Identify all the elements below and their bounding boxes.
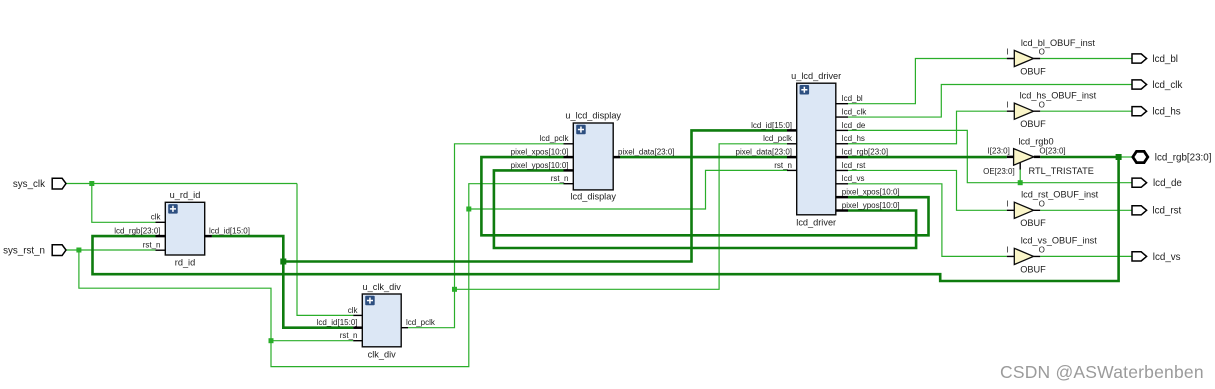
svg-text:u_rd_id: u_rd_id xyxy=(170,190,201,200)
port lcd_hs output xyxy=(1132,107,1181,118)
svg-text:rd_id: rd_id xyxy=(175,258,195,268)
svg-text:OBUF: OBUF xyxy=(1020,119,1046,129)
pin lcd_driver lcd_vs xyxy=(836,183,848,185)
pin lcd_driver lcd_rst xyxy=(836,169,848,171)
pin lcd_driver pixel_xpos[10:0] xyxy=(836,196,848,199)
svg-text:lcd_display: lcd_display xyxy=(570,192,616,202)
svg-text:lcd_rgb[23:0]: lcd_rgb[23:0] xyxy=(842,148,888,157)
svg-text:pixel_ypos[10:0]: pixel_ypos[10:0] xyxy=(842,201,900,210)
node sys_clk junction xyxy=(89,181,94,186)
wire lcd_rgb pad thin link to port xyxy=(1119,156,1133,158)
wire pixel_data bus xyxy=(620,156,787,159)
pin lcd_display pixel_data[23:0] xyxy=(613,156,620,159)
pin lcd_display lcd_pclk xyxy=(564,143,574,145)
svg-text:sys_clk: sys_clk xyxy=(13,179,45,190)
svg-text:clk: clk xyxy=(348,306,359,315)
node sys_rst_n junction branch to lcd_driver xyxy=(466,207,471,212)
pin lcd_driver lcd_id[15:0] xyxy=(787,129,797,132)
wire lcd_pclk net xyxy=(408,144,787,328)
svg-text:OBUF: OBUF xyxy=(1020,264,1046,274)
wire sys_clk net xyxy=(66,184,353,316)
svg-text:lcd_rgb[23:0]: lcd_rgb[23:0] xyxy=(114,227,160,236)
svg-text:lcd_rst: lcd_rst xyxy=(842,161,866,170)
svg-text:lcd_id[15:0]: lcd_id[15:0] xyxy=(317,318,358,327)
node lcd_de junction at OE xyxy=(1018,180,1023,185)
port lcd_bl output xyxy=(1132,54,1178,65)
svg-text:pixel_ypos[10:0]: pixel_ypos[10:0] xyxy=(511,161,569,170)
svg-text:lcd_rgb[23:0]: lcd_rgb[23:0] xyxy=(1155,152,1212,163)
svg-text:pixel_data[23:0]: pixel_data[23:0] xyxy=(618,148,675,157)
op-amp RTL_TRISTATE lcd_rgb0 xyxy=(983,137,1094,176)
svg-text:OBUF: OBUF xyxy=(1020,218,1046,228)
node lcd_pclk junction xyxy=(452,287,457,292)
pin rd_id lcd_rgb[23:0] xyxy=(156,235,166,238)
svg-text:lcd_hs_OBUF_inst: lcd_hs_OBUF_inst xyxy=(1020,91,1097,101)
wire lcd_rgb driver to tristate bus xyxy=(848,156,1007,159)
port lcd_rst output xyxy=(1132,206,1182,217)
pin lcd_display rst_n xyxy=(564,183,574,185)
svg-text:O: O xyxy=(1039,100,1045,109)
svg-text:rst_n: rst_n xyxy=(774,161,792,170)
svg-text:lcd_hs: lcd_hs xyxy=(1152,107,1180,118)
svg-text:I: I xyxy=(1006,100,1008,109)
svg-text:lcd_bl_OBUF_inst: lcd_bl_OBUF_inst xyxy=(1021,38,1095,48)
port lcd_vs output xyxy=(1132,252,1181,263)
wire tristate output bus xyxy=(1040,156,1118,159)
svg-text:RTL_TRISTATE: RTL_TRISTATE xyxy=(1029,166,1094,176)
svg-text:I: I xyxy=(1006,199,1008,208)
svg-text:O[23:0]: O[23:0] xyxy=(1039,146,1065,155)
svg-text:lcd_de: lcd_de xyxy=(842,121,866,130)
svg-text:lcd_vs: lcd_vs xyxy=(842,174,865,183)
port lcd_de output xyxy=(1132,178,1182,189)
node lcd_rgb pad junction xyxy=(1116,154,1122,160)
node sys_rst_n junction at clk_div xyxy=(269,338,274,343)
svg-text:I[23:0]: I[23:0] xyxy=(988,146,1010,155)
svg-text:CSDN @ASWaterbenben: CSDN @ASWaterbenben xyxy=(1000,362,1204,382)
svg-text:lcd_hs: lcd_hs xyxy=(842,134,865,143)
pin lcd_display pixel_xpos[10:0] xyxy=(564,156,574,159)
wire lcd_de net xyxy=(848,130,1132,182)
svg-text:sys_rst_n: sys_rst_n xyxy=(3,245,45,256)
svg-text:rst_n: rst_n xyxy=(340,331,358,340)
svg-text:lcd_rgb0: lcd_rgb0 xyxy=(1018,137,1053,147)
pin lcd_driver lcd_pclk xyxy=(787,143,797,145)
wire lcd_bl net xyxy=(848,59,1132,104)
op-amp OBUF lcd_bl_OBUF_inst xyxy=(1006,38,1095,77)
op-amp OBUF lcd_rst_OBUF_inst xyxy=(1006,190,1098,229)
pin rd_id clk xyxy=(156,221,166,223)
port lcd_clk output xyxy=(1132,80,1182,91)
svg-text:u_lcd_driver: u_lcd_driver xyxy=(791,71,841,81)
svg-text:pixel_xpos[10:0]: pixel_xpos[10:0] xyxy=(511,148,569,157)
node lcd_id bus junction xyxy=(280,259,286,265)
module u_clk_div xyxy=(362,282,401,360)
module u_lcd_display xyxy=(565,111,621,202)
module u_rd_id xyxy=(165,190,204,267)
pin rd_id lcd_id[15:0] xyxy=(205,235,212,238)
pin lcd_driver pixel_ypos[10:0] xyxy=(836,209,848,212)
svg-text:OBUF: OBUF xyxy=(1020,66,1046,76)
wire lcd_vs net xyxy=(848,184,1132,257)
op-amp OBUF lcd_hs_OBUF_inst xyxy=(1006,91,1096,130)
port sys_rst_n input xyxy=(3,245,66,257)
svg-text:lcd_de: lcd_de xyxy=(1153,178,1182,189)
svg-text:lcd_pclk: lcd_pclk xyxy=(540,134,570,143)
wire lcd_id bus net xyxy=(212,130,787,327)
svg-text:lcd_vs_OBUF_inst: lcd_vs_OBUF_inst xyxy=(1021,236,1098,246)
pin clk_div lcd_pclk xyxy=(401,327,408,329)
svg-text:rst_n: rst_n xyxy=(143,241,161,250)
svg-text:lcd_rst: lcd_rst xyxy=(1152,206,1181,217)
pin lcd_driver lcd_de xyxy=(836,129,848,131)
svg-text:lcd_driver: lcd_driver xyxy=(796,217,836,227)
wire lcd_clk net xyxy=(848,85,1132,118)
svg-text:lcd_bl: lcd_bl xyxy=(842,94,863,103)
wire lcd_rst net xyxy=(848,170,1132,210)
op-amp OBUF lcd_vs_OBUF_inst xyxy=(1006,236,1097,275)
svg-text:lcd_id[15:0]: lcd_id[15:0] xyxy=(751,121,792,130)
svg-text:OE[23:0]: OE[23:0] xyxy=(983,167,1015,176)
pin rd_id rst_n xyxy=(156,249,166,251)
svg-text:lcd_vs: lcd_vs xyxy=(1153,252,1181,263)
svg-text:lcd_id[15:0]: lcd_id[15:0] xyxy=(209,227,250,236)
svg-text:u_clk_div: u_clk_div xyxy=(363,282,402,292)
pin lcd_driver lcd_hs xyxy=(836,143,848,145)
pin clk_div lcd_id[15:0] xyxy=(353,326,362,329)
pin lcd_driver lcd_bl xyxy=(836,103,848,105)
pin clk_div clk xyxy=(353,314,362,316)
svg-text:pixel_data[23:0]: pixel_data[23:0] xyxy=(736,148,793,157)
node sys_rst_n junction at port xyxy=(76,248,81,253)
pin lcd_driver pixel_data[23:0] xyxy=(787,156,797,159)
port sys_clk input xyxy=(13,178,66,190)
svg-text:O: O xyxy=(1039,199,1045,208)
pin lcd_driver rst_n xyxy=(787,169,797,171)
wire sys_rst_n net xyxy=(66,170,787,366)
wire lcd_rgb bus rd_id to pad xyxy=(93,157,1119,281)
svg-text:lcd_rst_OBUF_inst: lcd_rst_OBUF_inst xyxy=(1021,190,1099,200)
svg-text:O: O xyxy=(1039,246,1045,255)
svg-text:lcd_pclk: lcd_pclk xyxy=(406,318,436,327)
svg-text:pixel_xpos[10:0]: pixel_xpos[10:0] xyxy=(842,188,900,197)
svg-text:O: O xyxy=(1039,48,1045,57)
pin lcd_driver lcd_rgb[23:0] xyxy=(836,156,848,159)
wire lcd_hs net xyxy=(848,111,1132,144)
svg-text:clk: clk xyxy=(151,213,162,222)
svg-text:clk_div: clk_div xyxy=(368,349,396,359)
port lcd_rgb[23:0] inout xyxy=(1133,151,1212,163)
wire pixel_ypos bus xyxy=(494,170,916,248)
pin clk_div rst_n xyxy=(353,340,362,342)
svg-text:lcd_clk: lcd_clk xyxy=(842,107,867,116)
svg-text:I: I xyxy=(1006,246,1008,255)
svg-text:lcd_pclk: lcd_pclk xyxy=(763,134,793,143)
pin lcd_display pixel_ypos[10:0] xyxy=(564,169,574,172)
svg-text:rst_n: rst_n xyxy=(551,174,569,183)
svg-text:u_lcd_display: u_lcd_display xyxy=(565,111,621,121)
pin lcd_driver lcd_clk xyxy=(836,116,848,118)
svg-text:lcd_clk: lcd_clk xyxy=(1152,80,1182,91)
svg-text:I: I xyxy=(1006,48,1008,57)
module u_lcd_driver xyxy=(791,71,841,227)
svg-text:lcd_bl: lcd_bl xyxy=(1152,54,1178,65)
wire pixel_xpos bus xyxy=(481,157,928,235)
